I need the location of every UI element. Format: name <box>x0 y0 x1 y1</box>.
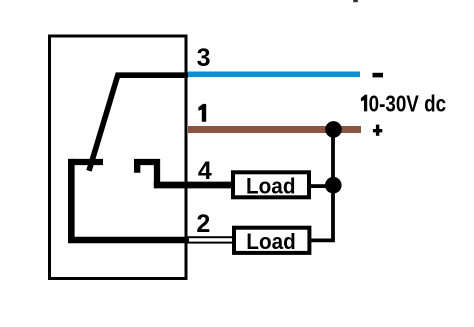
junction node at Load L1 output <box>325 177 342 194</box>
contact: right fixed contact with tick <box>134 159 157 185</box>
wire: pin 4 to Load <box>154 182 232 189</box>
wire: Load L1 output to supply rail <box>309 184 333 188</box>
svg-text:3: 3 <box>197 44 211 72</box>
pin label 3 <box>197 44 211 72</box>
svg-text:0-30V dc: 0-30V dc <box>369 90 447 116</box>
minus polarity symbol <box>373 73 384 78</box>
wire: pin 2 internal (left vertical + bottom run) <box>71 159 188 240</box>
plus polarity symbol <box>373 125 382 136</box>
svg-text:Load: Load <box>246 229 295 254</box>
wire: supply rail vertical + Load L2 return <box>310 129 333 240</box>
white wire (pin 2) <box>188 237 233 242</box>
contact: left fixed contact bar <box>71 159 103 165</box>
brown wire (pin 1, plus) <box>188 126 361 133</box>
svg-text:4: 4 <box>198 157 212 185</box>
stray mark (cropped text) at top edge <box>353 0 358 2</box>
sensor body outline <box>50 36 187 279</box>
pin label 4 <box>198 157 212 185</box>
blue wire (pin 3, minus) <box>188 72 360 78</box>
load L2 value label <box>246 229 295 254</box>
load box L2 <box>234 228 309 253</box>
pin label 1 <box>198 104 206 122</box>
pin label 2 <box>196 210 210 238</box>
load L1 value label <box>246 174 296 199</box>
junction node on brown wire <box>325 121 342 138</box>
load box L1 <box>233 172 309 197</box>
svg-text:Load: Load <box>246 174 296 199</box>
svg-text:2: 2 <box>196 210 210 238</box>
wire: pin 3 internal with switch lever <box>89 75 188 171</box>
supply voltage label 10-30V dc <box>361 90 446 116</box>
